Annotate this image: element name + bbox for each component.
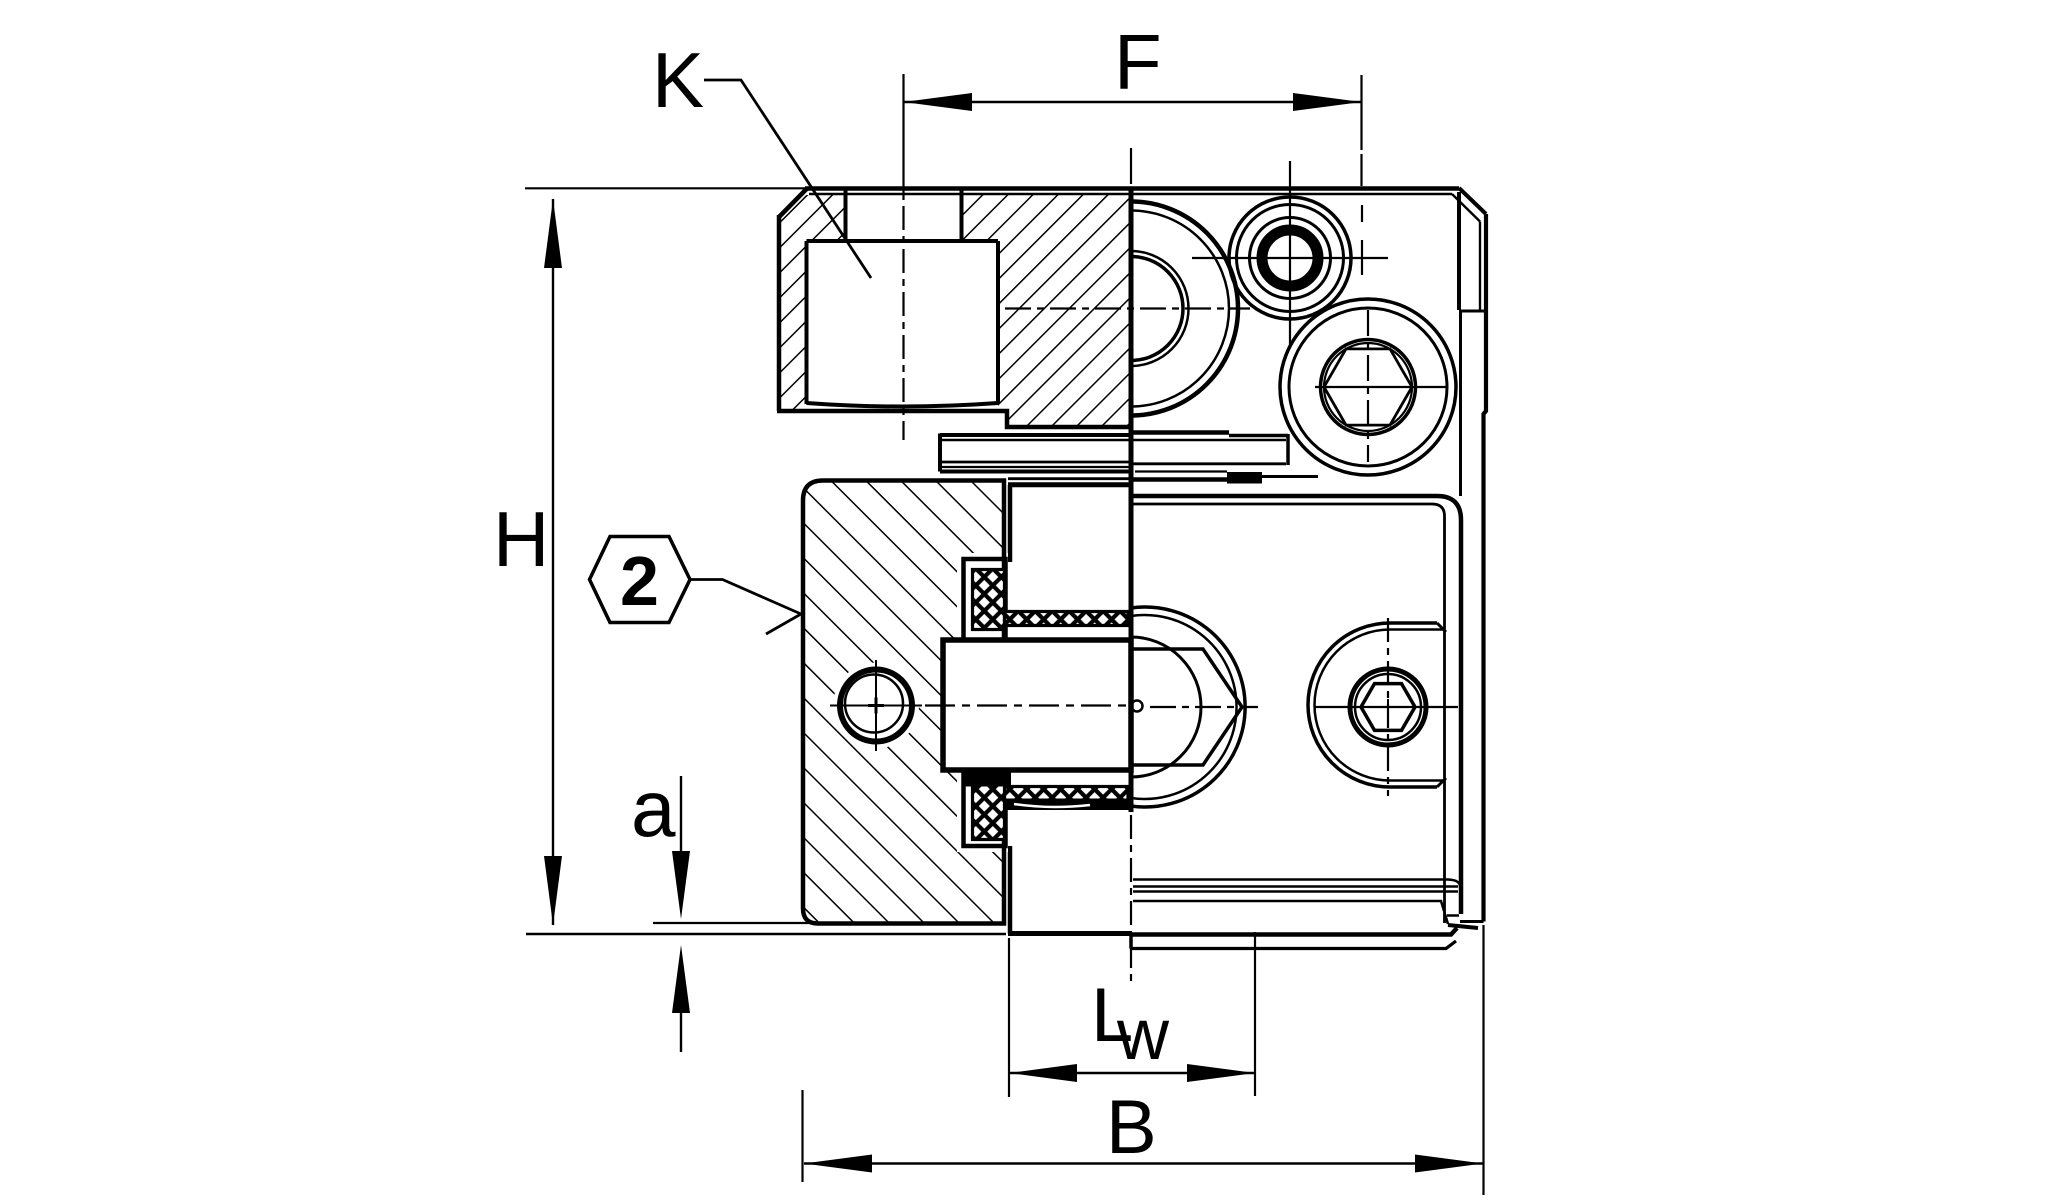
svg-text:a: a <box>631 764 676 853</box>
svg-text:F: F <box>1114 18 1162 106</box>
svg-text:w: w <box>1116 995 1170 1075</box>
svg-text:K: K <box>652 36 704 124</box>
svg-text:B: B <box>1106 1085 1157 1170</box>
svg-text:2: 2 <box>620 542 659 620</box>
svg-text:H: H <box>493 495 549 583</box>
